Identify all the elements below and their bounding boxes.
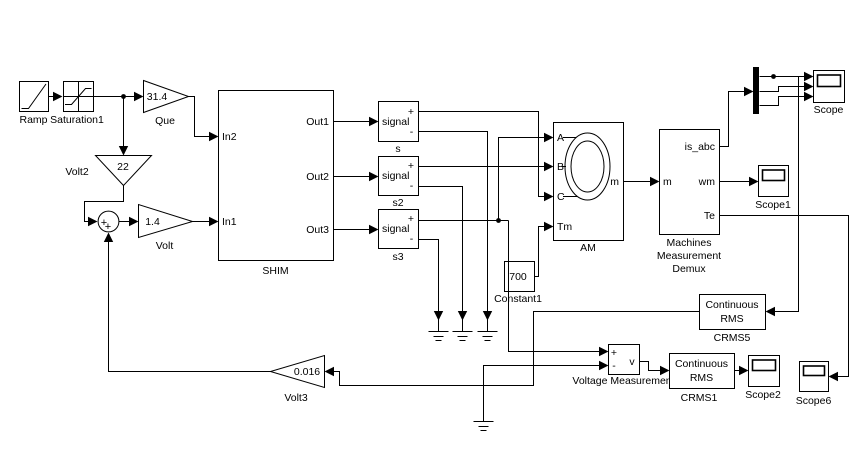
svg-text:signal: signal	[382, 170, 409, 182]
svg-text:AM: AM	[580, 242, 596, 254]
svg-text:Scope2: Scope2	[745, 389, 781, 401]
svg-text:RMS: RMS	[690, 372, 713, 384]
svg-text:+: +	[611, 347, 617, 359]
svg-text:m: m	[663, 176, 672, 188]
svg-text:-: -	[410, 233, 414, 245]
svg-text:700: 700	[509, 271, 527, 283]
svg-text:-: -	[410, 180, 414, 192]
svg-text:+: +	[408, 213, 414, 225]
svg-text:+: +	[105, 221, 111, 233]
svg-text:-: -	[612, 360, 616, 372]
svg-text:Continuous: Continuous	[705, 299, 758, 311]
svg-text:Volt3: Volt3	[284, 392, 308, 404]
svg-text:s3: s3	[392, 251, 403, 263]
svg-text:SHIM: SHIM	[262, 265, 288, 277]
svg-text:RMS: RMS	[720, 313, 743, 325]
svg-text:+: +	[408, 106, 414, 118]
svg-text:+: +	[408, 160, 414, 172]
svg-text:Out1: Out1	[306, 116, 329, 128]
svg-text:-: -	[410, 126, 414, 138]
svg-text:0.016: 0.016	[294, 366, 320, 378]
svg-text:Voltage Measurement: Voltage Measurement	[572, 375, 674, 387]
svg-text:Ramp: Ramp	[19, 114, 47, 126]
svg-text:Tm: Tm	[557, 221, 572, 233]
svg-text:Scope1: Scope1	[755, 199, 791, 211]
svg-text:Out3: Out3	[306, 224, 329, 236]
svg-text:B: B	[557, 161, 564, 173]
svg-text:CRMS1: CRMS1	[681, 392, 718, 404]
svg-text:is_abc: is_abc	[685, 141, 715, 153]
svg-text:Machines: Machines	[667, 237, 712, 249]
svg-text:Que: Que	[155, 115, 175, 127]
svg-text:Demux: Demux	[672, 263, 706, 275]
svg-text:wm: wm	[698, 176, 716, 188]
svg-text:C: C	[557, 191, 565, 203]
svg-text:Constant1: Constant1	[494, 293, 542, 305]
svg-text:Volt2: Volt2	[65, 166, 89, 178]
svg-text:Out2: Out2	[306, 171, 329, 183]
svg-text:signal: signal	[382, 116, 409, 128]
svg-text:1.4: 1.4	[145, 216, 160, 228]
svg-text:31.4: 31.4	[147, 91, 168, 103]
svg-text:Scope6: Scope6	[796, 395, 832, 407]
svg-text:22: 22	[117, 161, 129, 173]
svg-text:A: A	[557, 132, 564, 144]
svg-text:In1: In1	[222, 216, 237, 228]
svg-text:Te: Te	[704, 210, 715, 222]
svg-text:Measurement: Measurement	[657, 250, 721, 262]
svg-text:Scope: Scope	[814, 104, 844, 116]
svg-text:Saturation1: Saturation1	[50, 114, 104, 126]
svg-text:v: v	[629, 356, 635, 368]
svg-text:Continuous: Continuous	[675, 358, 728, 370]
svg-text:In2: In2	[222, 131, 237, 143]
svg-text:Volt: Volt	[156, 240, 174, 252]
svg-text:CRMS5: CRMS5	[714, 332, 751, 344]
svg-text:s: s	[395, 143, 400, 155]
svg-text:m: m	[610, 176, 619, 188]
svg-text:signal: signal	[382, 223, 409, 235]
svg-text:s2: s2	[392, 197, 403, 209]
